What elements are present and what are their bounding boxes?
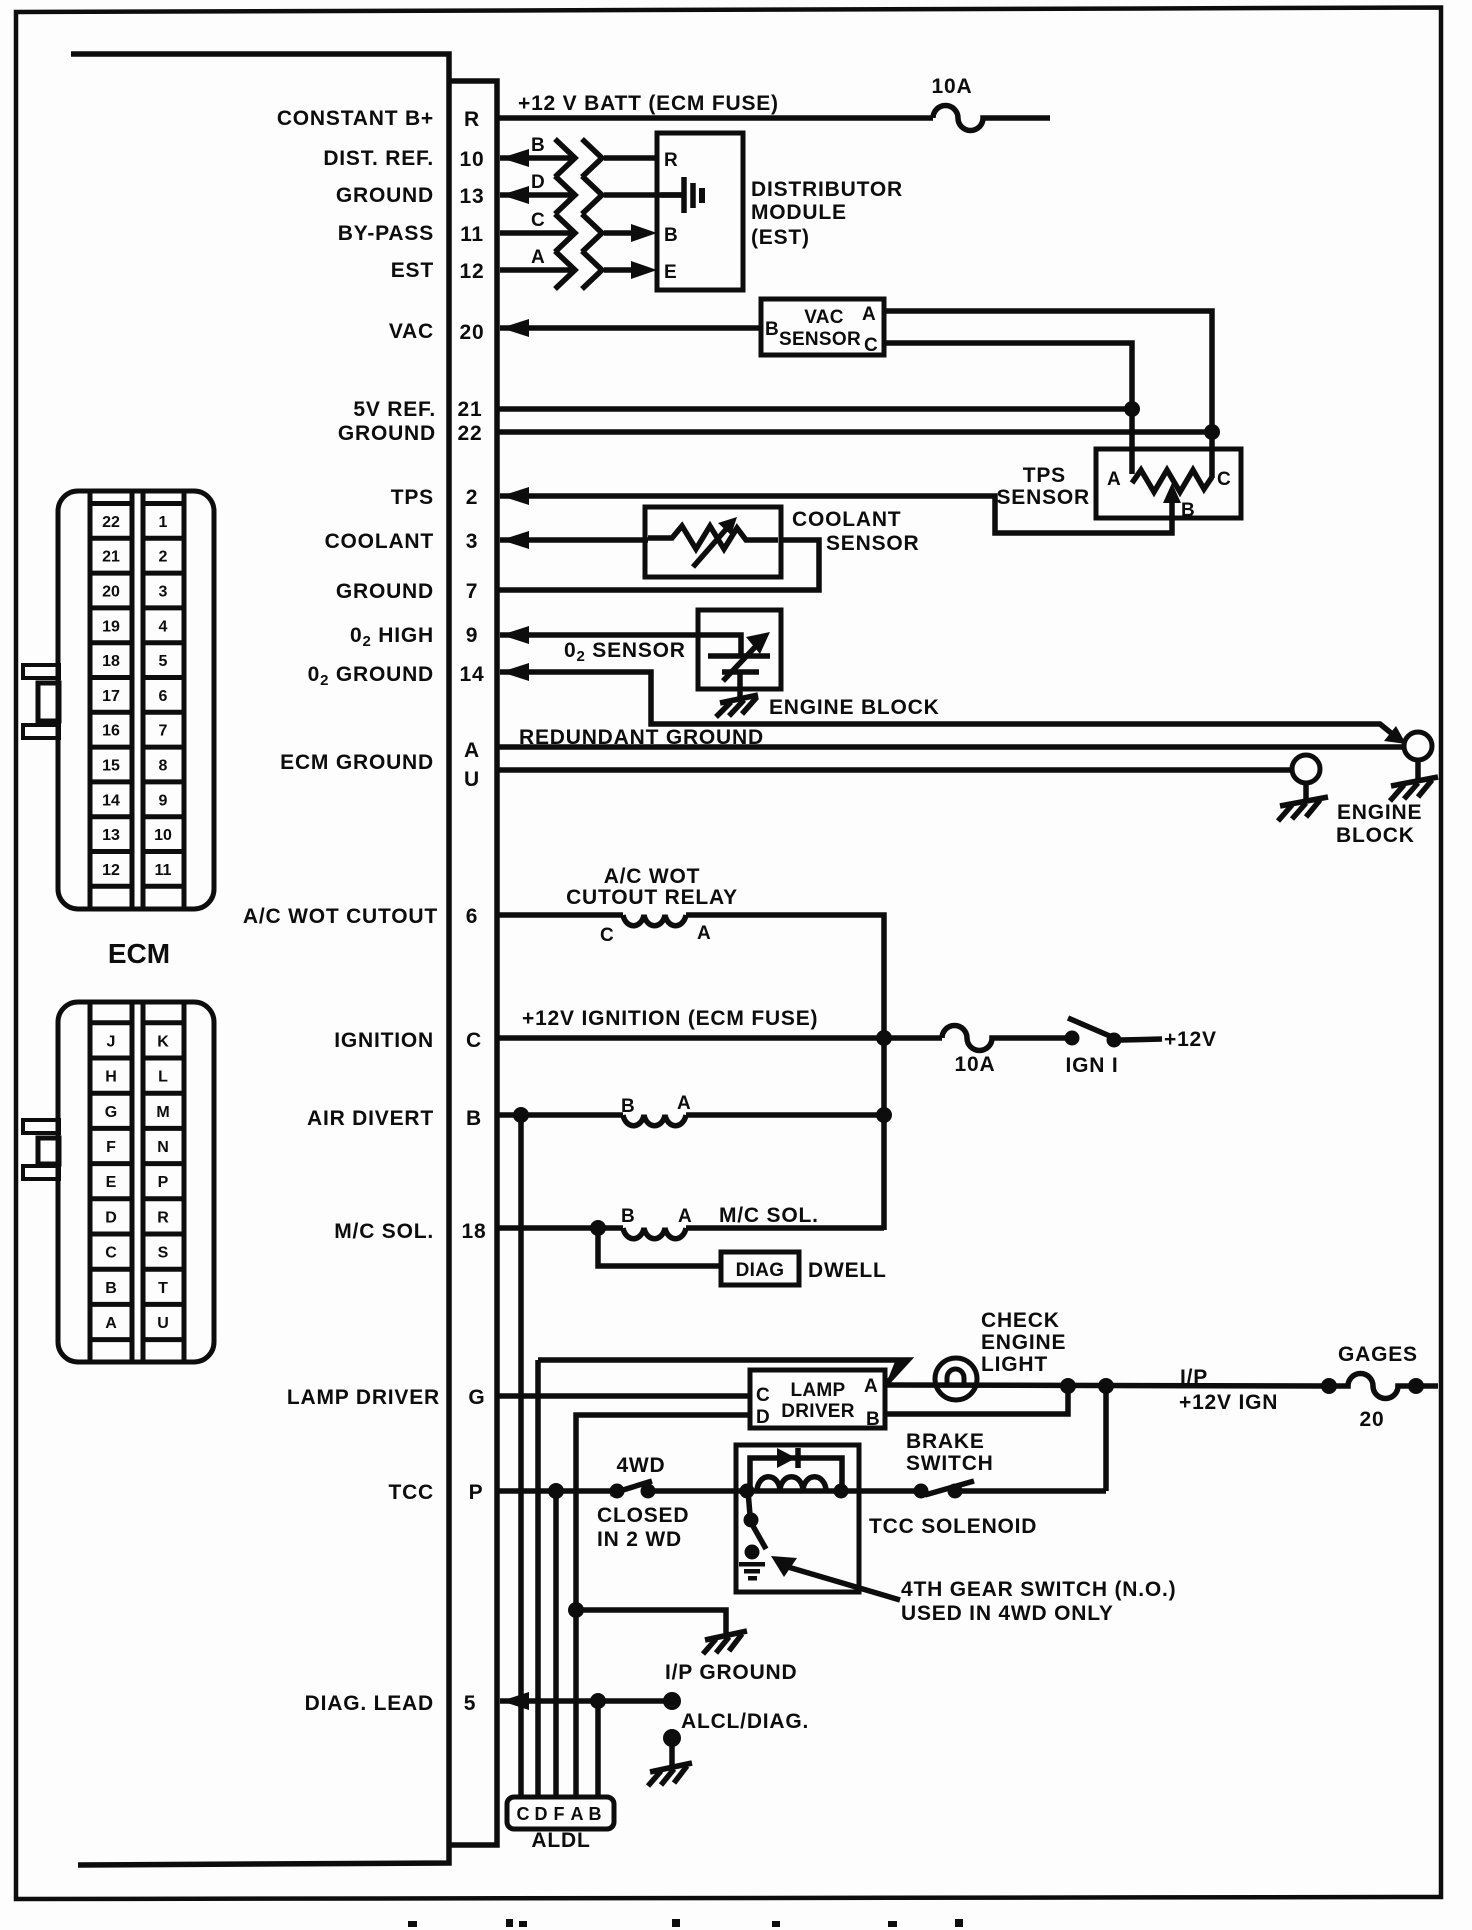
coolant thermistor zigzag bbox=[648, 526, 778, 549]
svg-text:ALDL: ALDL bbox=[531, 1829, 590, 1852]
DIAG branch wire bbox=[598, 1228, 721, 1266]
svg-text:GAGES: GAGES bbox=[1338, 1343, 1418, 1366]
check engine light bulb bbox=[935, 1358, 977, 1400]
coolant sensor box bbox=[645, 507, 781, 577]
wire 11 to distributor B bbox=[500, 230, 572, 236]
svg-text:LIGHT: LIGHT bbox=[981, 1353, 1048, 1376]
svg-text:5: 5 bbox=[159, 653, 168, 670]
svg-text:6: 6 bbox=[159, 688, 168, 705]
junction light wire / brake switch riser bbox=[1098, 1378, 1114, 1394]
svg-text:3: 3 bbox=[159, 584, 168, 601]
wire 22 to TPS C node bbox=[497, 429, 1212, 435]
svg-text:+12V IGNITION (ECM FUSE): +12V IGNITION (ECM FUSE) bbox=[522, 1007, 818, 1030]
svg-text:B: B bbox=[589, 1804, 602, 1824]
wire C +12V ignition bbox=[497, 1035, 942, 1041]
svg-text:A: A bbox=[464, 739, 480, 762]
junction wire22/VAC A bbox=[1204, 424, 1220, 440]
wire 3 to coolant sensor bbox=[500, 537, 648, 543]
svg-text:B: B bbox=[105, 1280, 117, 1297]
wire 4WD switch to TCC solenoid bbox=[648, 1488, 747, 1494]
engine block ground terminal right bbox=[1390, 732, 1438, 801]
air divert solenoid coil bbox=[623, 1115, 686, 1126]
svg-text:4WD: 4WD bbox=[616, 1454, 665, 1477]
svg-text:MODULE: MODULE bbox=[751, 201, 847, 224]
O2 sensor plates bbox=[708, 653, 770, 659]
svg-text:VAC: VAC bbox=[804, 307, 844, 328]
junction wire21/VAC C bbox=[1124, 401, 1140, 417]
svg-text:7: 7 bbox=[159, 723, 168, 740]
O2 sensor box bbox=[698, 610, 781, 689]
svg-text:D: D bbox=[535, 1804, 548, 1824]
brake switch riser bbox=[1103, 1386, 1109, 1491]
TPS sensor box bbox=[1096, 449, 1241, 518]
svg-text:GROUND: GROUND bbox=[336, 580, 434, 603]
svg-text:10: 10 bbox=[460, 148, 485, 171]
svg-text:A/C WOT CUTOUT: A/C WOT CUTOUT bbox=[243, 905, 438, 928]
svg-text:DWELL: DWELL bbox=[808, 1259, 887, 1282]
ALDL connector box bbox=[507, 1797, 614, 1829]
svg-text:D: D bbox=[756, 1407, 770, 1428]
wire A to engine block right terminal bbox=[497, 744, 1404, 750]
lamp driver box bbox=[750, 1370, 885, 1428]
svg-text:SENSOR: SENSOR bbox=[779, 329, 861, 350]
TCC solenoid coil bbox=[757, 1477, 826, 1491]
ALCL/DIAG terminal bbox=[663, 1692, 681, 1710]
svg-text:A: A bbox=[105, 1315, 117, 1332]
svg-text:5: 5 bbox=[464, 1692, 476, 1715]
lamp driver A node flag wire to ALDL-D riser bbox=[538, 1360, 908, 1384]
distributor internal ground symbol bbox=[661, 177, 705, 213]
svg-text:(EST): (EST) bbox=[751, 226, 810, 249]
svg-text:U: U bbox=[157, 1315, 169, 1332]
connector 1 tabs bbox=[23, 665, 59, 738]
svg-text:TCC SOLENOID: TCC SOLENOID bbox=[869, 1515, 1037, 1538]
svg-text:R: R bbox=[664, 150, 678, 171]
svg-text:CUTOUT RELAY: CUTOUT RELAY bbox=[566, 886, 738, 909]
svg-text:8: 8 bbox=[159, 758, 168, 775]
svg-text:21: 21 bbox=[458, 398, 483, 421]
svg-text:11: 11 bbox=[155, 862, 172, 879]
svg-text:L: L bbox=[158, 1069, 168, 1086]
svg-text:+12V: +12V bbox=[1164, 1028, 1217, 1051]
svg-text:17: 17 bbox=[102, 688, 120, 705]
svg-text:3: 3 bbox=[466, 530, 478, 553]
A/C WOT cutout relay coil bbox=[623, 915, 686, 926]
ALDL pin letters bbox=[517, 1804, 602, 1824]
svg-text:14: 14 bbox=[460, 663, 485, 686]
M/C solenoid coil bbox=[623, 1228, 686, 1239]
svg-text:DIAG. LEAD: DIAG. LEAD bbox=[305, 1692, 434, 1715]
ALDL-F riser bbox=[553, 1491, 559, 1797]
TPS wiper arrow bbox=[1163, 483, 1181, 503]
wire 12 to distributor E bbox=[500, 267, 572, 273]
wire 10 to distributor R bbox=[500, 155, 572, 161]
wire P TCC bbox=[497, 1488, 617, 1494]
svg-text:ENGINE: ENGINE bbox=[981, 1331, 1066, 1354]
svg-text:C: C bbox=[105, 1245, 117, 1262]
svg-text:21: 21 bbox=[102, 549, 120, 566]
engine block ground terminal left bbox=[1278, 755, 1328, 821]
4th gear switch ground bbox=[739, 1562, 765, 1581]
svg-text:USED IN 4WD ONLY: USED IN 4WD ONLY bbox=[901, 1602, 1114, 1625]
distributor module box bbox=[657, 133, 743, 290]
wire U to engine block left terminal bbox=[497, 767, 1292, 773]
ECM outline bbox=[71, 54, 497, 1865]
svg-text:F: F bbox=[106, 1139, 116, 1156]
svg-text:U: U bbox=[464, 768, 480, 791]
svg-text:CONSTANT B+: CONSTANT B+ bbox=[277, 107, 434, 130]
svg-text:BLOCK: BLOCK bbox=[1336, 824, 1415, 847]
VAC sensor box bbox=[761, 299, 884, 355]
svg-text:ALCL/DIAG.: ALCL/DIAG. bbox=[681, 1710, 809, 1733]
svg-text:DIST. REF.: DIST. REF. bbox=[323, 147, 434, 170]
O2 sensor arrow bbox=[723, 645, 757, 681]
svg-text:LAMP DRIVER: LAMP DRIVER bbox=[287, 1386, 440, 1409]
svg-text:I/P GROUND: I/P GROUND bbox=[665, 1661, 797, 1684]
junction before gages fuse bbox=[1321, 1378, 1337, 1394]
svg-text:SWITCH: SWITCH bbox=[906, 1452, 994, 1475]
ALDL-C riser from wire B bbox=[518, 1115, 524, 1797]
fuse 10A (ignition) bbox=[942, 1026, 1066, 1051]
svg-text:20: 20 bbox=[102, 584, 120, 601]
svg-text:C: C bbox=[756, 1385, 770, 1406]
svg-text:DIAG: DIAG bbox=[736, 1260, 785, 1281]
connector 2 pin letters bbox=[105, 1033, 170, 1332]
svg-text:CLOSED: CLOSED bbox=[597, 1504, 689, 1527]
wire 5 diag lead bbox=[500, 1698, 668, 1704]
svg-text:N: N bbox=[157, 1139, 169, 1156]
TPS potentiometer zigzag bbox=[1132, 470, 1212, 492]
svg-text:18: 18 bbox=[462, 1220, 487, 1243]
svg-text:DISTRIBUTOR: DISTRIBUTOR bbox=[751, 178, 903, 201]
svg-text:B: B bbox=[621, 1096, 635, 1117]
wire VAC A to TPS C bbox=[884, 311, 1212, 478]
svg-text:M/C SOL.: M/C SOL. bbox=[719, 1204, 819, 1227]
svg-text:B: B bbox=[621, 1206, 635, 1227]
wire coolant return to pin 7 bbox=[497, 540, 819, 590]
svg-text:C: C bbox=[600, 925, 614, 946]
svg-text:7: 7 bbox=[466, 580, 478, 603]
svg-text:2: 2 bbox=[466, 486, 478, 509]
svg-text:+12V IGN: +12V IGN bbox=[1179, 1391, 1278, 1414]
svg-text:BY-PASS: BY-PASS bbox=[338, 222, 434, 245]
svg-text:TPS: TPS bbox=[391, 486, 434, 509]
redundant ground arrowhead bbox=[1384, 726, 1406, 744]
svg-text:A/C WOT: A/C WOT bbox=[604, 865, 701, 888]
wire lamp driver D to ALDL-A riser bbox=[576, 1415, 750, 1797]
wire 6 / relay coil circuit bbox=[497, 912, 623, 918]
junction wireP/ALDL-F riser bbox=[548, 1483, 564, 1499]
svg-text:14: 14 bbox=[102, 792, 120, 809]
svg-text:A: A bbox=[862, 304, 876, 325]
svg-text:D: D bbox=[531, 172, 545, 193]
svg-text:B: B bbox=[1181, 500, 1195, 521]
brake switch bbox=[914, 1481, 975, 1499]
ALDL-D riser bbox=[535, 1360, 541, 1797]
svg-text:C: C bbox=[1217, 469, 1231, 490]
wire 14 redundant ground to engine block bbox=[500, 672, 1396, 737]
ECM connector block 1 (pins 22-12 / 1-11) bbox=[58, 491, 214, 909]
terminal dot after gages fuse bbox=[1408, 1378, 1424, 1394]
wire lamp driver A to check engine light bbox=[885, 1385, 1329, 1386]
svg-text:COOLANT: COOLANT bbox=[325, 530, 434, 553]
svg-text:SENSOR: SENSOR bbox=[997, 486, 1091, 509]
svg-text:R: R bbox=[464, 108, 480, 131]
junction wireB/relay riser bbox=[876, 1107, 892, 1123]
connector 1 pin numbers bbox=[102, 514, 172, 879]
wire 9 to O2 sensor bbox=[500, 635, 741, 655]
svg-text:12: 12 bbox=[102, 862, 120, 879]
ECM connector block 2 (pins J-A / K-U) bbox=[58, 1002, 214, 1362]
svg-text:4TH GEAR SWITCH (N.O.): 4TH GEAR SWITCH (N.O.) bbox=[901, 1578, 1176, 1601]
wire 21 to TPS A node bbox=[497, 406, 1132, 412]
bottom caption fragments bbox=[408, 1919, 963, 1927]
I/P chassis ground bbox=[703, 1631, 747, 1654]
svg-text:22: 22 bbox=[458, 422, 483, 445]
svg-text:COOLANT: COOLANT bbox=[792, 508, 901, 531]
switch IGN I bbox=[1065, 1018, 1163, 1048]
svg-text:11: 11 bbox=[460, 223, 484, 246]
svg-text:BRAKE: BRAKE bbox=[906, 1430, 985, 1453]
svg-text:B: B bbox=[466, 1107, 482, 1130]
junction wire18/DIAG branch bbox=[590, 1220, 606, 1236]
svg-text:A: A bbox=[864, 1376, 878, 1397]
svg-text:G: G bbox=[468, 1386, 485, 1409]
svg-text:D: D bbox=[105, 1209, 117, 1226]
svg-text:12: 12 bbox=[460, 260, 485, 283]
svg-text:19: 19 bbox=[102, 618, 120, 635]
junction wireC/relay bbox=[876, 1030, 892, 1046]
svg-text:A: A bbox=[571, 1804, 584, 1824]
svg-text:M/C SOL.: M/C SOL. bbox=[334, 1220, 434, 1243]
diode bbox=[777, 1448, 796, 1468]
O2 sensor ground stem bbox=[737, 672, 743, 700]
svg-text:C: C bbox=[517, 1804, 530, 1824]
junction wireB/ALDL-C riser bbox=[513, 1107, 529, 1123]
TCC coil junction right bbox=[834, 1484, 849, 1499]
svg-text:A: A bbox=[677, 1093, 691, 1114]
ALDL-B riser bbox=[595, 1701, 601, 1797]
svg-text:TCC: TCC bbox=[388, 1481, 434, 1504]
TCC coil junction left bbox=[740, 1484, 755, 1499]
connector chevrons row 12 bbox=[555, 251, 575, 289]
svg-text:IN 2 WD: IN 2 WD bbox=[597, 1528, 682, 1551]
svg-text:13: 13 bbox=[102, 827, 120, 844]
svg-text:2: 2 bbox=[159, 549, 168, 566]
4WD switch bbox=[610, 1481, 656, 1499]
svg-text:A: A bbox=[678, 1206, 692, 1227]
svg-text:C: C bbox=[864, 335, 878, 356]
svg-text:IGN I: IGN I bbox=[1065, 1054, 1118, 1077]
TCC solenoid box bbox=[736, 1445, 859, 1592]
svg-text:4: 4 bbox=[159, 618, 168, 635]
svg-text:16: 16 bbox=[102, 723, 120, 740]
svg-text:1: 1 bbox=[159, 514, 168, 531]
wire brake switch up to light wire bbox=[955, 1488, 1106, 1494]
wire 13 to distributor ground bbox=[500, 192, 572, 198]
svg-text:I/P: I/P bbox=[1180, 1366, 1208, 1389]
connector chevrons row 11 bbox=[555, 214, 575, 252]
wire 2 to TPS wiper B bbox=[500, 496, 1172, 533]
svg-text:+12 V BATT (ECM FUSE): +12 V BATT (ECM FUSE) bbox=[518, 92, 779, 115]
svg-text:GROUND: GROUND bbox=[338, 422, 436, 445]
svg-text:A: A bbox=[1107, 469, 1121, 490]
svg-text:F: F bbox=[554, 1804, 565, 1824]
fuse 10A (ECM fuse) bbox=[933, 105, 1050, 130]
wire TCC solenoid to brake switch bbox=[841, 1488, 916, 1494]
svg-text:10A: 10A bbox=[955, 1053, 996, 1076]
junction wire5/ALDL-B riser bbox=[590, 1693, 606, 1709]
connector 2 cell grid bbox=[90, 1023, 184, 1340]
ALCL chassis ground bbox=[648, 1763, 692, 1786]
coolant thermistor arrow bbox=[693, 527, 728, 567]
wire G to lamp driver C bbox=[497, 1393, 750, 1399]
svg-text:CHECK: CHECK bbox=[981, 1309, 1060, 1332]
svg-text:R: R bbox=[157, 1209, 169, 1226]
svg-text:ECM: ECM bbox=[108, 938, 170, 969]
svg-text:ENGINE: ENGINE bbox=[1337, 801, 1422, 824]
svg-text:G: G bbox=[105, 1104, 117, 1121]
svg-text:K: K bbox=[157, 1033, 169, 1050]
wire lamp driver B to light wire bbox=[885, 1386, 1068, 1414]
svg-text:B: B bbox=[765, 319, 779, 340]
svg-text:E: E bbox=[664, 262, 677, 283]
wire R +12V BATT bbox=[497, 115, 933, 121]
svg-text:T: T bbox=[158, 1280, 168, 1297]
ALDL-A riser I/P ground junction bbox=[568, 1602, 584, 1618]
svg-text:P: P bbox=[469, 1481, 484, 1504]
junction light wire / lamp B bbox=[1060, 1378, 1076, 1394]
ALCL ground terminal bbox=[663, 1729, 681, 1747]
svg-text:10A: 10A bbox=[932, 75, 973, 98]
svg-text:B: B bbox=[866, 1409, 880, 1430]
svg-text:EST: EST bbox=[391, 259, 434, 282]
4th gear switch bbox=[744, 1491, 767, 1560]
svg-text:20: 20 bbox=[1360, 1408, 1385, 1431]
svg-text:SENSOR: SENSOR bbox=[826, 532, 920, 555]
svg-text:6: 6 bbox=[466, 905, 478, 928]
svg-text:9: 9 bbox=[159, 792, 168, 809]
svg-text:LAMP: LAMP bbox=[790, 1380, 845, 1401]
svg-text:B: B bbox=[531, 135, 545, 156]
I/P ground wire bbox=[576, 1610, 726, 1633]
svg-text:H: H bbox=[105, 1069, 117, 1086]
svg-text:A: A bbox=[697, 923, 711, 944]
svg-text:C: C bbox=[466, 1029, 482, 1052]
svg-text:A: A bbox=[531, 247, 545, 268]
svg-text:M: M bbox=[156, 1104, 169, 1121]
svg-text:22: 22 bbox=[102, 514, 120, 531]
svg-text:ECM GROUND: ECM GROUND bbox=[280, 751, 434, 774]
wire B air divert bbox=[497, 1112, 623, 1118]
svg-text:P: P bbox=[158, 1174, 169, 1191]
wire VAC C to TPS A bbox=[884, 343, 1132, 474]
wire 18 M/C solenoid bbox=[497, 1225, 623, 1231]
connector 2 tabs bbox=[23, 1120, 59, 1179]
svg-text:13: 13 bbox=[460, 185, 485, 208]
connector chevrons row 13 bbox=[555, 176, 575, 214]
fuse GAGES 20 bbox=[1329, 1374, 1438, 1399]
svg-text:9: 9 bbox=[466, 624, 478, 647]
wire 20 to VAC sensor B bbox=[500, 325, 761, 331]
svg-text:GROUND: GROUND bbox=[336, 184, 434, 207]
svg-text:C: C bbox=[531, 210, 545, 231]
TCC diode loop bbox=[750, 1458, 842, 1491]
4th gear switch annotation arrow bbox=[788, 1567, 900, 1600]
svg-text:10: 10 bbox=[154, 827, 172, 844]
O2 chassis ground bbox=[716, 695, 758, 717]
svg-text:TPS: TPS bbox=[1023, 464, 1066, 487]
DIAG meter box bbox=[721, 1252, 799, 1285]
svg-text:AIR DIVERT: AIR DIVERT bbox=[307, 1107, 434, 1130]
connector chevrons row 10 bbox=[555, 139, 575, 177]
svg-text:18: 18 bbox=[102, 653, 120, 670]
svg-text:5V REF.: 5V REF. bbox=[353, 398, 436, 421]
svg-text:20: 20 bbox=[460, 321, 485, 344]
svg-text:15: 15 bbox=[102, 758, 120, 775]
svg-text:DRIVER: DRIVER bbox=[781, 1401, 855, 1422]
connector 1 cell grid bbox=[90, 504, 184, 887]
svg-text:E: E bbox=[106, 1174, 117, 1191]
svg-text:B: B bbox=[664, 225, 678, 246]
svg-text:J: J bbox=[107, 1033, 116, 1050]
svg-text:ENGINE BLOCK: ENGINE BLOCK bbox=[769, 696, 940, 719]
svg-text:IGNITION: IGNITION bbox=[334, 1029, 434, 1052]
svg-text:S: S bbox=[158, 1245, 169, 1262]
svg-text:VAC: VAC bbox=[389, 320, 434, 343]
